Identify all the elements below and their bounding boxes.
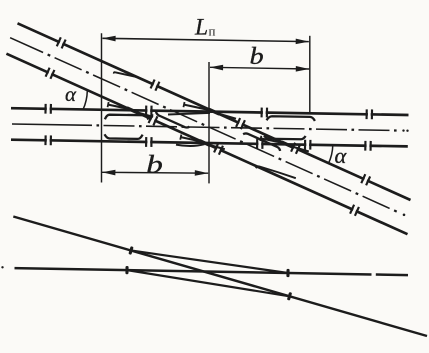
frog point tick on diagonal left — [128, 246, 133, 255]
joint bars on D1 at x=365.7 — [360, 174, 371, 186]
wire: diagonal track bottom rail D2 — [6, 54, 407, 235]
svg-text:п: п — [209, 24, 216, 39]
joint bars on D2 at x=354.5 — [349, 204, 360, 216]
joint bars on T1 at x=264.3 — [260, 108, 268, 118]
frog K1 point blob — [125, 106, 138, 114]
frog point tick on straight left — [125, 266, 128, 274]
joint bars on D1 at x=61.2 — [56, 37, 67, 49]
svg-text:b: b — [146, 151, 163, 178]
frog point tick on straight right — [286, 269, 289, 277]
simple diagram: straight track line — [15, 268, 372, 274]
wire: straight track top rail T1 — [11, 108, 409, 115]
extension line 1 (x=101.5) — [101, 33, 103, 182]
dimension line L_p with arrows — [103, 38, 309, 41]
joint bars on D2 at x=153 — [148, 114, 159, 126]
check rail below T1 left (arch with down flares) — [105, 115, 148, 120]
joint bars on D1 at x=155 — [150, 79, 161, 91]
svg-text:α: α — [65, 82, 77, 106]
svg-text:α: α — [335, 143, 348, 168]
joint bars on T1 at x=369.3 — [365, 109, 373, 119]
dimension line b bottom with arrows — [102, 171, 208, 174]
wire: straight track centerline C1 (dash-dot) — [12, 124, 92, 125]
joint bars on D2 at x=218.5 — [213, 143, 224, 155]
angle arc alpha left — [83, 91, 87, 110]
simple diagram: diagonal track line — [13, 217, 427, 337]
dimension line b top with arrows — [210, 67, 309, 69]
frog K2 point blob — [198, 139, 211, 147]
check rail above T2 right — [264, 136, 306, 139]
joint bars on D1 at x=240.5 — [235, 118, 246, 130]
extension line 2 (x=209, crossing centre) — [208, 62, 210, 183]
wing stroke merging into D1 (left of crossing) — [114, 72, 138, 77]
joint bars on D2 at x=50 — [45, 67, 56, 79]
svg-text:b: b — [250, 43, 264, 70]
frog K2 wing rails (D2 x T2) — [181, 137, 204, 142]
check rail above T2 left (flares up) — [105, 134, 143, 139]
wire: straight track bottom rail T2 — [11, 140, 408, 147]
svg-text:L: L — [194, 14, 208, 40]
joint bars on T2 at x=259.8 — [256, 139, 264, 149]
joint bars on T1 at x=148.8 — [145, 106, 153, 116]
simple diagram: leading dot — [1, 266, 3, 268]
check rail along D2 inner side (between K1,K2) — [155, 112, 189, 129]
extension line 3 (x=309.8) — [309, 36, 311, 112]
wing stroke along D2 upper side (right of crossing) — [256, 166, 296, 178]
frog K4 wing rails (D1 x T2) — [261, 138, 286, 143]
frog K4 point blob — [280, 140, 293, 148]
wire: diagonal track top rail D1 — [18, 23, 411, 200]
frog point tick on diagonal right — [287, 292, 292, 301]
simple diagram: crossover line 2 (straight to diag) — [127, 270, 290, 296]
check rail along D1 inner side (between K3,K4) — [243, 132, 281, 151]
joint bars on T2 at x=368 — [364, 141, 372, 151]
joint bars on T2 at x=307.7 — [304, 140, 312, 150]
simple diagram: crossover line 1 (diag to straight) — [131, 251, 288, 274]
check rail below T1 right — [267, 116, 315, 121]
frog K3 wing rails (D1 x T1) — [184, 105, 213, 111]
wire: diagonal track centerline C2 (dash-dot) — [10, 38, 43, 53]
frog K1 wing rails (D2 x T1) — [108, 105, 131, 110]
joint bars on T1 at x=48.2 — [44, 104, 52, 114]
joint bars on T2 at x=48.2 — [44, 135, 52, 145]
joint bars on T2 at x=148.8 — [145, 137, 153, 147]
angle arc alpha right — [328, 145, 332, 163]
joint bars on D1 at x=295.5 — [290, 142, 301, 154]
frog K3 point blob — [207, 107, 220, 115]
